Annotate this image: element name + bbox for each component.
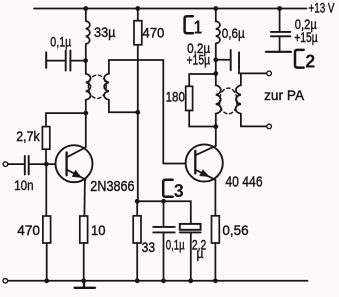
transformer T2 primary winding <box>216 74 221 127</box>
input terminal <box>3 162 8 167</box>
junction rail/C2 <box>277 6 282 11</box>
capacitor 0,2µ+15µ series coupling (C1 group) <box>216 50 267 74</box>
wire +13V top supply rail <box>34 8 307 10</box>
svg-text:2: 2 <box>305 51 315 72</box>
wire T1 secondary top to Q2 base <box>109 60 186 164</box>
ground-side terminal <box>3 279 8 284</box>
transformer T2 secondary winding <box>236 73 241 126</box>
svg-text:10: 10 <box>91 222 106 238</box>
svg-text:470: 470 <box>142 24 164 40</box>
output terminal bottom <box>267 124 272 129</box>
svg-text:zur PA: zur PA <box>264 87 305 103</box>
wire T1 secondary bottom to 470 node <box>109 111 138 113</box>
resistor 470 (top) <box>134 9 142 202</box>
svg-text:1: 1 <box>194 16 203 37</box>
junction C-0,1u/T1 primary <box>83 58 88 63</box>
junction gnd/C-0,1u <box>161 278 166 283</box>
transistor Q2 40446 <box>186 144 223 181</box>
svg-text:33µ: 33µ <box>94 24 116 40</box>
junction Q1 base <box>44 162 49 167</box>
svg-text:33: 33 <box>142 239 156 255</box>
svg-text:0,6µ: 0,6µ <box>222 25 245 41</box>
label C2 <box>295 50 315 72</box>
resistor 470 (base bias, lower left) <box>43 216 51 281</box>
capacitor C2 0,2µ+15µ supply bypass <box>266 9 291 52</box>
inductor 0,6µ <box>216 9 220 74</box>
output terminal top <box>267 71 272 76</box>
junction gnd/R10 <box>81 278 86 283</box>
wire T2 secondary bottom to output <box>241 125 267 127</box>
junction C3 node left <box>135 199 140 204</box>
svg-text:2,7k: 2,7k <box>16 128 40 144</box>
junction R470a/T1 secondary <box>135 110 140 115</box>
capacitor 2,2µ electrolytic (C3b) <box>180 224 201 281</box>
resistor 33 <box>133 201 141 280</box>
bottom rail <box>8 280 308 282</box>
transistor Q1 2N3866 <box>56 145 93 216</box>
junction gnd/R33 <box>135 278 140 283</box>
wire Q1 base node down <box>45 164 47 216</box>
transformer T2 core (dashed) <box>220 88 238 114</box>
junction gnd/R0,56 <box>213 278 218 283</box>
svg-text:3: 3 <box>174 180 184 201</box>
node A: R180/T2 primary top <box>213 71 218 76</box>
svg-text:40 446: 40 446 <box>225 174 262 191</box>
wire Q2 emitter down <box>214 180 216 216</box>
svg-text:470: 470 <box>17 222 40 238</box>
resistor 2,7k feedback <box>42 113 85 164</box>
resistor 10 (emitter) <box>80 216 88 281</box>
label C3 <box>163 180 184 201</box>
resistor 180 <box>186 74 216 127</box>
svg-text:+15µ: +15µ <box>294 29 318 45</box>
node line C3 <box>137 201 191 224</box>
transformer T1 core (dashed) <box>88 75 106 98</box>
svg-text:+15µ: +15µ <box>187 51 211 67</box>
svg-text:180: 180 <box>166 88 185 104</box>
capacitor 0,1µ input coupling (top left) <box>46 51 85 71</box>
capacitor 10n input <box>8 156 56 175</box>
junction Q1 collector/R2,7k <box>83 111 88 116</box>
node B: Q2 collector/T2 primary bottom <box>213 124 218 129</box>
junction gnd/R470b <box>44 278 49 283</box>
junction C3 node mid <box>161 199 166 204</box>
junction rail/L1 <box>83 6 88 11</box>
svg-text:10n: 10n <box>14 177 33 193</box>
junction rail/L2 <box>213 6 218 11</box>
transformer T1 secondary winding <box>104 60 109 112</box>
capacitor 0,1µ (C3a) <box>153 201 174 280</box>
svg-text:0,1µ: 0,1µ <box>166 237 185 253</box>
junction L2/C1 tap <box>213 57 218 62</box>
svg-text:µ: µ <box>197 245 204 261</box>
wire Q2 collector up <box>215 127 217 146</box>
svg-text:0,1µ: 0,1µ <box>50 34 71 50</box>
junction rail/R470a <box>135 6 140 11</box>
svg-text:+13 V: +13 V <box>309 0 335 15</box>
ground symbol <box>75 281 95 288</box>
label C1 <box>185 16 203 37</box>
inductor 33µ <box>86 9 90 74</box>
transformer T1 primary winding <box>86 74 91 148</box>
svg-text:2N3866: 2N3866 <box>90 178 134 195</box>
resistor 0,56 <box>212 216 220 281</box>
junction gnd/C-2,2u <box>188 278 193 283</box>
svg-text:0,56: 0,56 <box>222 222 248 238</box>
